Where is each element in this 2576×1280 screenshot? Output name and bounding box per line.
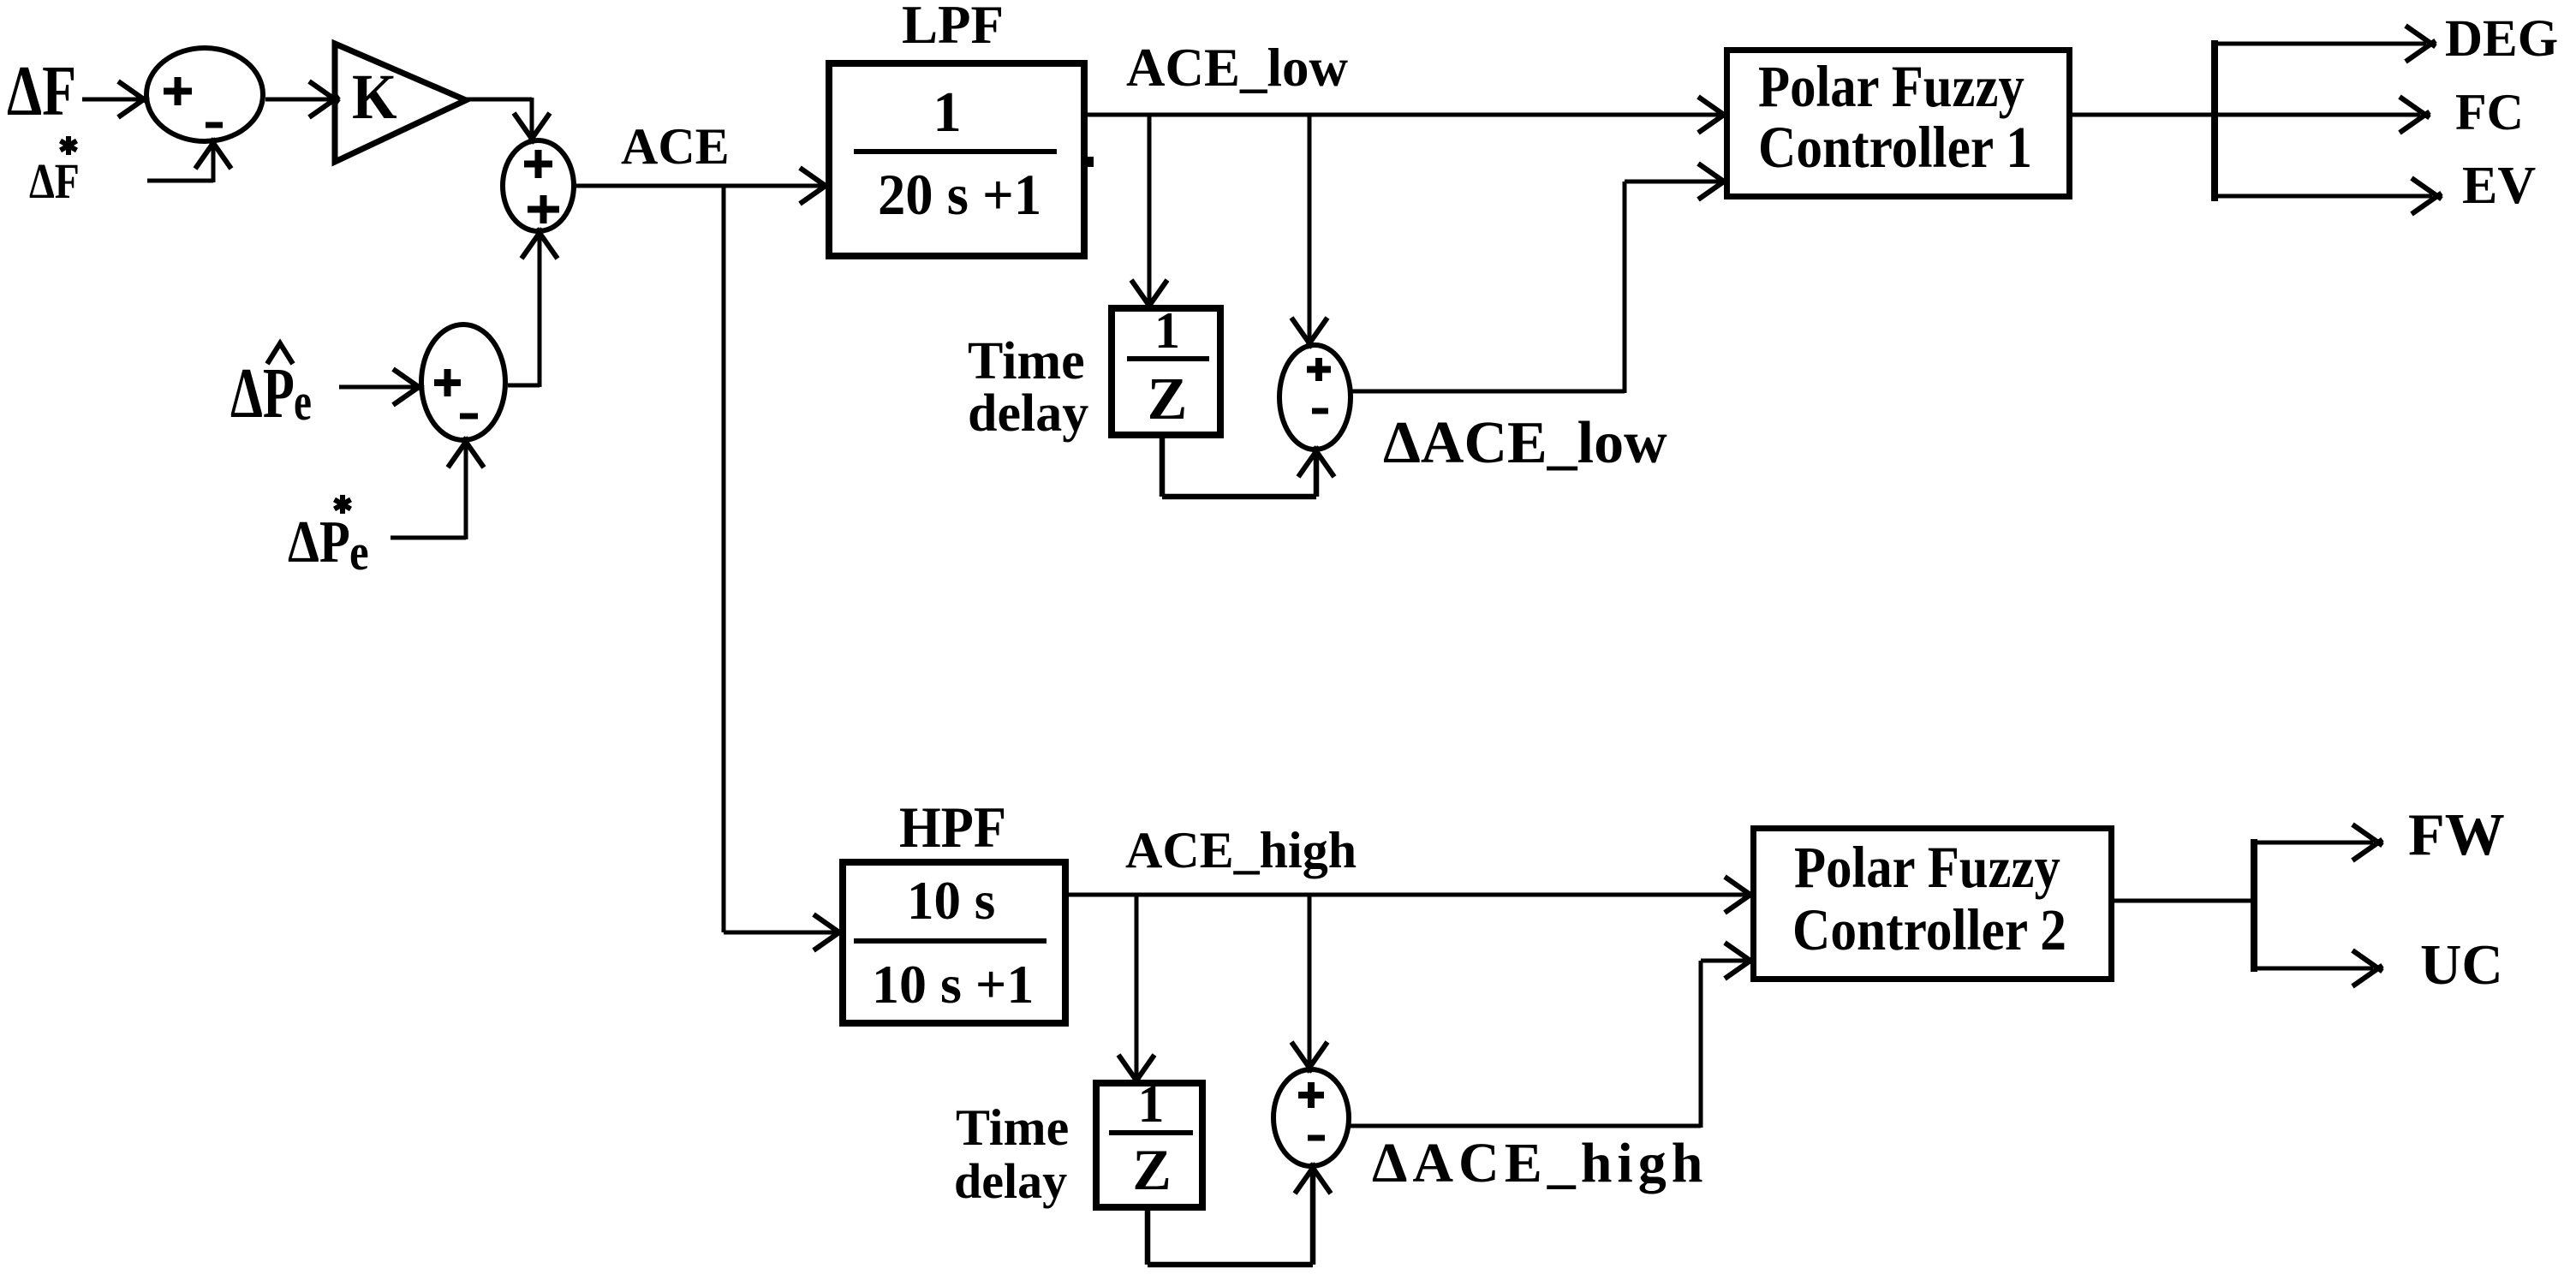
S5 minus sign	[460, 414, 478, 420]
S5 plus sign	[434, 369, 461, 396]
gain K triangle	[335, 44, 466, 162]
wire S4 to PFC2 (ΔACE_high)	[1346, 943, 1755, 1128]
svg-text:Z: Z	[1132, 1137, 1171, 1202]
svg-text:K: K	[352, 62, 397, 133]
svg-text:e: e	[349, 524, 369, 581]
wire ACE branch down to HPF	[724, 186, 844, 950]
node ΔF* label	[29, 136, 80, 209]
S3 minus sign	[1312, 408, 1328, 414]
wire TD2 feedback to S4	[1148, 1164, 1331, 1265]
svg-text:Time: Time	[956, 1099, 1069, 1156]
node ΔP̂e label	[230, 343, 312, 432]
wire ΔP̂e to summer S5	[339, 369, 423, 405]
S1 minus sign	[206, 122, 223, 128]
summing junction S2	[503, 140, 574, 231]
LPF fraction bar	[854, 149, 1057, 154]
HPF fraction bar	[854, 938, 1046, 944]
svg-text:EV: EV	[2462, 157, 2536, 215]
svg-text:20 s +1: 20 s +1	[878, 164, 1041, 228]
svg-text:Z: Z	[1148, 366, 1188, 432]
S4 minus sign	[1308, 1135, 1325, 1141]
wire S5 to S2	[508, 229, 558, 387]
wire S3 to PFC1 (ΔACE_low)	[1349, 164, 1728, 393]
wire ACE_low branch to time delay TD1	[1131, 115, 1167, 310]
wire FW output	[2254, 825, 2382, 860]
S3 plus sign	[1307, 358, 1331, 381]
svg-text:UC: UC	[2420, 933, 2503, 997]
wire PFC2 output to fork F2	[2114, 899, 2254, 903]
svg-text:ACE: ACE	[621, 118, 730, 175]
wire ACE_high branch to time delay TD2	[1118, 895, 1154, 1085]
svg-text:1: 1	[1154, 302, 1180, 359]
svg-text:1: 1	[933, 80, 962, 144]
svg-text:FW: FW	[2408, 802, 2505, 868]
wire ACE_low branch to summer S3	[1291, 115, 1327, 348]
TD2 fraction bar	[1109, 1130, 1193, 1135]
svg-text:Polar Fuzzy: Polar Fuzzy	[1758, 54, 2024, 119]
svg-text:HPF: HPF	[899, 796, 1006, 860]
summing junction S4	[1273, 1069, 1349, 1166]
scan artifact mark at LPF right edge	[1088, 157, 1094, 167]
wire PFC1 output to fork F1	[2072, 113, 2215, 117]
svg-text:Polar Fuzzy: Polar Fuzzy	[1794, 835, 2060, 900]
svg-text:ΔF: ΔF	[7, 51, 76, 131]
wire HPF to PFC2 (ACE_high)	[1069, 877, 1755, 913]
wire EV output	[2215, 178, 2442, 214]
svg-text:e: e	[294, 372, 312, 432]
wire LPF to PFC1 (ACE_low)	[1088, 97, 1728, 133]
S2 lower plus sign	[528, 195, 559, 223]
S2 upper plus sign	[524, 150, 552, 178]
wire ΔPe* to S5	[391, 438, 484, 539]
block LPF box	[829, 63, 1084, 256]
svg-text:FC: FC	[2455, 84, 2524, 140]
wire FC output	[2215, 97, 2430, 133]
wire S1 to gain K	[265, 81, 339, 117]
svg-text:ACE_high: ACE_high	[1125, 822, 1357, 878]
svg-text:Time: Time	[968, 332, 1085, 390]
wire DEG output	[2215, 26, 2436, 62]
wire UC output	[2254, 950, 2382, 986]
svg-text:LPF: LPF	[902, 0, 1004, 55]
svg-text:DEG: DEG	[2445, 10, 2558, 68]
TD1 label Time delay	[968, 332, 1088, 443]
wire K to summer S2	[463, 98, 550, 143]
wire ACE_high branch to summer S4	[1291, 895, 1327, 1072]
svg-text:ΔACE_high: ΔACE_high	[1372, 1132, 1708, 1194]
svg-text:ΔACE_low: ΔACE_low	[1383, 410, 1667, 476]
block TD2 time delay box	[1096, 1083, 1202, 1207]
block TD1 time delay box	[1112, 308, 1220, 435]
svg-text:ΔF: ΔF	[29, 155, 80, 209]
svg-text:Controller 2: Controller 2	[1792, 898, 2066, 963]
wire ΔF* to S1	[147, 139, 231, 182]
svg-text:ΔP: ΔP	[230, 353, 295, 432]
summing junction S5	[421, 324, 505, 440]
svg-text:Controller 1: Controller 1	[1758, 116, 2032, 181]
S4 plus sign	[1298, 1082, 1324, 1108]
svg-text:delay: delay	[954, 1153, 1067, 1209]
S1 plus sign	[164, 77, 192, 105]
wire ΔF to summer S1	[82, 81, 148, 117]
block PFC2 Polar Fuzzy Controller 2 box	[1754, 829, 2112, 979]
TD2 label Time delay	[954, 1099, 1069, 1209]
fork F2 vertical	[2251, 839, 2257, 972]
svg-text:ACE_low: ACE_low	[1126, 38, 1349, 98]
block HPF box	[843, 862, 1065, 1023]
svg-text:1: 1	[1138, 1075, 1165, 1134]
fork F1 vertical	[2211, 40, 2218, 201]
wire S2 to LPF (ACE)	[576, 168, 830, 204]
svg-text:ΔP: ΔP	[288, 508, 350, 575]
svg-text:10 s: 10 s	[907, 871, 995, 931]
svg-text:delay: delay	[968, 384, 1088, 443]
TD1 fraction bar	[1127, 356, 1209, 361]
node ΔPe* label	[288, 495, 369, 581]
block PFC1 Polar Fuzzy Controller 1 box	[1727, 51, 2070, 197]
summing junction S1	[146, 48, 263, 141]
summing junction S3	[1279, 345, 1351, 449]
wire TD1 feedback to S3	[1162, 438, 1334, 497]
svg-text:10 s +1: 10 s +1	[872, 954, 1034, 1015]
